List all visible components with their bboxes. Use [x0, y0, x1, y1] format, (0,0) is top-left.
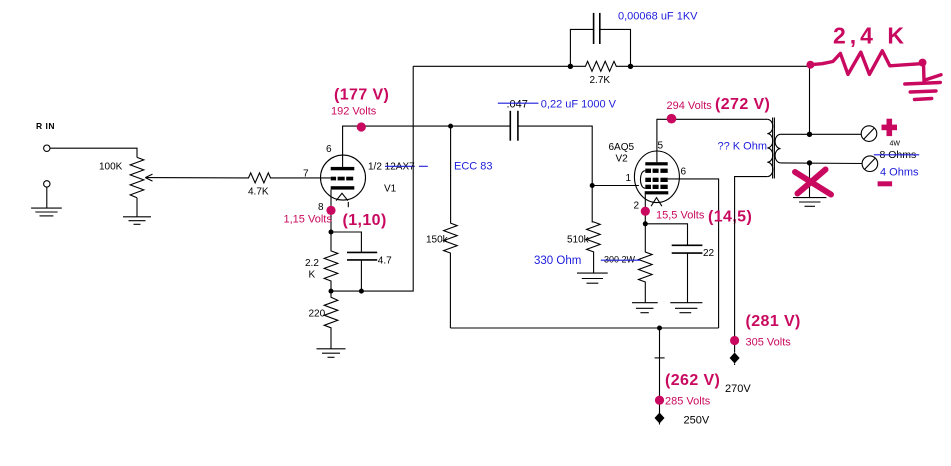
wiper arrow of pot [145, 174, 246, 181]
wire V2 pin 6 to right rail [668, 179, 719, 328]
value label 2.2 K [305, 258, 319, 281]
wire primary bottom to 305V stub [735, 177, 768, 353]
value label 510k [567, 235, 590, 246]
svg-text:K: K [309, 270, 316, 281]
svg-text:?? K Ohm: ?? K Ohm [718, 141, 768, 153]
resistor 2,4K handwritten [806, 51, 926, 81]
wire secondary bottom to ground [809, 163, 811, 198]
pin 7 label [303, 169, 309, 180]
svg-text:2: 2 [634, 201, 640, 212]
wire 4.7K to V1 grid pin 7 [273, 177, 331, 179]
label 2,4 K handwritten [833, 23, 908, 49]
svg-text:R IN: R IN [36, 121, 55, 131]
value label 22 [703, 248, 715, 259]
svg-text:(262 V): (262 V) [665, 372, 720, 389]
svg-text:510k: 510k [567, 235, 590, 246]
wire cap 22 to ground [687, 253, 689, 303]
svg-text:ECC 83: ECC 83 [454, 161, 493, 173]
ground under secondary [793, 198, 826, 207]
wire V2 plate pin 5 to transformer [657, 119, 767, 162]
bottom rail wire [450, 327, 718, 329]
wire input to pot top [50, 148, 137, 157]
wire J2 to ground [46, 187, 48, 208]
label 305 Volts [746, 337, 792, 349]
value label 0,22 uF 1000 V [541, 99, 617, 111]
V2 name label [609, 142, 635, 165]
V2 grid dashes rows [645, 169, 667, 189]
svg-text:100K: 100K [99, 162, 123, 173]
pin 1 label [626, 173, 632, 184]
label (272 V) [715, 96, 770, 113]
wire V2 cathode pin 2 down [644, 194, 646, 223]
wire 2.7K right to output node [631, 66, 810, 134]
resistor 2.2K [324, 232, 338, 291]
svg-text:6AQ5: 6AQ5 [609, 142, 635, 153]
pentode V2 envelope [634, 151, 679, 203]
node secondary top [807, 132, 812, 137]
transformer core [773, 118, 775, 179]
resistor 220 [324, 291, 338, 349]
resistor 300 2W cathode [639, 224, 653, 303]
label 250V [684, 415, 710, 427]
svg-text:.047: .047 [507, 99, 528, 111]
wire cap bottom [360, 260, 362, 291]
V1 heater chevron [336, 193, 348, 207]
probe dot 285V [655, 396, 664, 405]
svg-text:V2: V2 [616, 154, 629, 165]
node bottom rail B+ tap [657, 326, 662, 331]
resistor 150k [444, 126, 458, 328]
value label 150k [426, 235, 449, 246]
wire V1 plate pin 6 up to node A [343, 126, 451, 167]
svg-text:(14,5): (14,5) [708, 209, 752, 226]
svg-text:5: 5 [658, 141, 664, 152]
V1 grid dashes [331, 177, 354, 181]
svg-text:8: 8 [318, 202, 324, 213]
ground under J2 [31, 208, 62, 216]
label (14,5) [708, 209, 752, 226]
svg-text:330 Ohm: 330 Ohm [534, 255, 581, 267]
svg-text:(281 V): (281 V) [746, 313, 801, 330]
svg-text:0,22 uF 1000 V: 0,22 uF 1000 V [541, 99, 617, 111]
triode V1 envelope [321, 155, 366, 200]
minus sign pink [878, 181, 893, 186]
V2 plate bar [645, 162, 667, 165]
node 2.7K left [568, 64, 573, 69]
V2 grid hook [640, 171, 645, 189]
V2 heater chevron [651, 198, 662, 207]
label 4 Ohms [880, 167, 919, 179]
node below 2.2K [329, 289, 334, 294]
blue strike over 300 2W [601, 259, 640, 261]
ground under cap 22 [670, 303, 702, 313]
resistor 2.7K [570, 61, 630, 71]
node cathode junction V2 [643, 221, 648, 226]
pin 6 label [326, 144, 332, 155]
value label 220 [309, 309, 326, 320]
transformer secondary coil [775, 134, 781, 163]
plus sign pink [882, 119, 898, 136]
value label 100K [99, 162, 123, 173]
svg-text:0,00068 uF 1KV: 0,00068 uF 1KV [618, 11, 698, 23]
wire cap to V2 grid node [518, 126, 592, 185]
value label 0,00068 uF 1KV [618, 11, 698, 23]
label 300 2W struck [604, 255, 636, 265]
label 192 Volts [331, 106, 377, 118]
V1 name label [368, 161, 415, 172]
svg-text:6: 6 [681, 167, 687, 178]
label (177 V) [334, 87, 389, 104]
svg-text:2.2: 2.2 [305, 258, 319, 269]
svg-text:4 Ohms: 4 Ohms [880, 167, 919, 179]
ground handwritten pink [905, 75, 941, 100]
svg-text:250V: 250V [684, 415, 710, 427]
wire node A to coupling cap [451, 125, 511, 127]
probe dot 294V [667, 114, 677, 124]
blue strike through 12AX7 [385, 165, 428, 167]
node cathode junction [329, 230, 334, 235]
speaker terminal minus [862, 156, 878, 172]
wire secondary top to terminal [781, 133, 862, 135]
wire V1 cathode pin 8 down [330, 190, 332, 232]
capacitor 0.22uF plates [510, 111, 518, 141]
value label 4.7 [378, 256, 392, 267]
svg-text:22: 22 [703, 248, 715, 259]
probe dot 305V [730, 336, 739, 345]
svg-text:1: 1 [626, 173, 632, 184]
label 285 Volts [665, 396, 711, 408]
svg-text:1,15 Volts: 1,15 Volts [284, 214, 333, 226]
node 2.7K right [628, 64, 633, 69]
label (262 V) [665, 372, 720, 389]
wire secondary bottom to terminal [781, 162, 863, 165]
svg-text:2.7K: 2.7K [590, 75, 611, 86]
svg-text:2,4 K: 2,4 K [833, 23, 908, 49]
svg-text:270V: 270V [725, 383, 751, 395]
svg-text:220: 220 [309, 309, 326, 320]
svg-text:305 Volts: 305 Volts [746, 337, 792, 349]
V1 plate bar [331, 167, 355, 170]
connector diamond B+ [655, 413, 665, 424]
label (281 V) [746, 313, 801, 330]
resistor 510k [587, 186, 601, 274]
potentiometer 100K [130, 157, 144, 197]
svg-text:285 Volts: 285 Volts [665, 396, 711, 408]
connector diamond 305V [730, 353, 740, 364]
probe dot 15,5V [641, 207, 650, 216]
speaker terminal plus [861, 126, 877, 142]
svg-text:6: 6 [326, 144, 332, 155]
wire junction to cap 4.7 [331, 232, 361, 252]
pin 2 label [634, 201, 640, 212]
capacitor 0.00068uF leads [570, 29, 630, 66]
svg-text:15,5 Volts: 15,5 Volts [656, 210, 705, 222]
V1 designator [384, 184, 397, 195]
svg-text:7: 7 [303, 169, 309, 180]
handwritten pink annotations [795, 23, 941, 195]
svg-text:(177 V): (177 V) [334, 87, 389, 104]
wire cathode junction to cap 22 [645, 224, 687, 246]
capacitor 0.00068uF plates [594, 13, 600, 44]
wire below diamond [734, 364, 736, 366]
node below cap 4.7 [359, 289, 364, 294]
ground under pot [123, 217, 151, 225]
capacitor 22 plates [672, 245, 703, 253]
label 15,5 Volts [656, 210, 705, 222]
node V2 grid junction [590, 183, 595, 188]
svg-text:V1: V1 [384, 184, 397, 195]
resistor 4.7K [246, 173, 273, 183]
V2 cathode bar [645, 191, 669, 194]
tick on B+ stub [655, 357, 665, 359]
label ECC 83 [454, 161, 493, 173]
svg-text:150k: 150k [426, 235, 449, 246]
node R IN label [36, 121, 55, 131]
ground under 510k [577, 273, 608, 283]
transformer primary coil [767, 119, 773, 176]
label 294 Volts [667, 100, 713, 112]
svg-text:4.7: 4.7 [378, 256, 392, 267]
capacitor 4.7 [347, 252, 377, 260]
input jack J1 [44, 145, 50, 151]
label 4W [890, 141, 901, 148]
wire NFB bottom [331, 66, 413, 291]
blue strike over .047 [498, 102, 539, 104]
wire NFB top to 2.7K left node [413, 65, 570, 67]
wire grid node to V2 pin 1 [592, 185, 639, 187]
probe dot 192V [357, 122, 366, 131]
X crossout on output ground [795, 170, 831, 195]
ground under cathode resistor [632, 303, 658, 313]
svg-text:4W: 4W [890, 141, 901, 148]
wire B+ stub down [659, 328, 661, 425]
value label 4.7K [248, 187, 269, 198]
label (1,10) [343, 212, 387, 229]
probe dot 1,15V [326, 206, 335, 215]
V1 cathode bar [331, 186, 355, 189]
svg-text:4.7K: 4.7K [248, 187, 269, 198]
svg-text:192 Volts: 192 Volts [331, 106, 377, 118]
pin 8 label [318, 202, 324, 213]
svg-text:(272 V): (272 V) [715, 96, 770, 113]
label ?? K Ohm [718, 141, 768, 153]
node secondary bottom [807, 160, 812, 165]
ground under 220 [317, 349, 346, 358]
pin 5 label [658, 141, 664, 152]
input jack J2 [44, 181, 50, 187]
label 8 Ohms struck [880, 149, 917, 161]
value label 2.7K [590, 75, 611, 86]
node A junction dot [448, 124, 453, 129]
svg-text:(1,10): (1,10) [343, 212, 387, 229]
svg-text:294 Volts: 294 Volts [667, 100, 713, 112]
label 330 Ohm [534, 255, 581, 267]
label 1,15 Volts [284, 214, 333, 226]
pin 6 label [681, 167, 687, 178]
label 270V [725, 383, 751, 395]
wire pot bottom to ground [136, 198, 138, 217]
label .047 struck [507, 99, 528, 111]
